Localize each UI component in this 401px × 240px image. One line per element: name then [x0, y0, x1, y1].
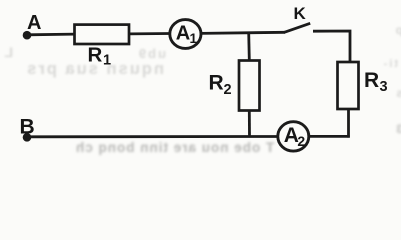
- wire switch contact to top-right corner and down to R3: [313, 31, 350, 63]
- label R2: [209, 72, 232, 99]
- ammeter A1: [170, 20, 201, 49]
- label R3: [364, 69, 388, 95]
- faint mark right edge: [376, 58, 398, 70]
- svg-text:R: R: [364, 69, 379, 92]
- svg-text:A: A: [27, 12, 41, 34]
- faint mark right edge upper: [389, 23, 401, 37]
- wire B to A2: [27, 135, 278, 138]
- faint bleed-through text line bottom: [75, 140, 274, 155]
- node B dot: [23, 133, 32, 142]
- switch K blade: [284, 23, 310, 32]
- wire junction down to R2: [247, 33, 250, 60]
- svg-text:1: 1: [103, 53, 111, 69]
- faint bleed-through text line left middle: [4, 60, 164, 79]
- faint blob left edge: [0, 44, 13, 60]
- resistor R2: [239, 61, 260, 111]
- svg-text:K: K: [294, 4, 307, 23]
- svg-text:2: 2: [297, 133, 305, 149]
- node A dot: [23, 31, 32, 40]
- wire A to R1: [27, 33, 75, 37]
- ammeter A2: [278, 122, 309, 151]
- wire R2 to bottom wire: [248, 110, 251, 137]
- svg-text:2: 2: [224, 82, 232, 98]
- resistor R1: [75, 25, 130, 44]
- svg-text:A: A: [176, 23, 190, 45]
- svg-text:3: 3: [380, 79, 388, 95]
- label R1: [88, 44, 112, 69]
- faint mark right edge lower: [389, 122, 401, 136]
- faint bleed-through marks under R1: [116, 46, 166, 61]
- wire A2 to R3 bottom: [309, 135, 350, 138]
- wire R1 to A1: [129, 32, 171, 35]
- resistor R3: [338, 62, 359, 109]
- svg-text:R: R: [209, 72, 224, 95]
- wire R3 to bottom wire: [347, 109, 350, 138]
- svg-text:R: R: [88, 44, 103, 67]
- svg-text:1: 1: [190, 31, 198, 46]
- wire A1 to switch (with junction to R2): [201, 32, 285, 33]
- faint mark right edge mid: [391, 86, 401, 100]
